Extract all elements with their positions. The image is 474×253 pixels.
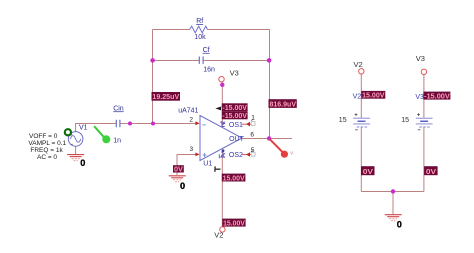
svg-text:uA741: uA741 (178, 108, 198, 115)
svg-text:AC = 0: AC = 0 (37, 154, 57, 161)
svg-text:15.00V: 15.00V (223, 219, 245, 228)
svg-text:OS2: OS2 (229, 152, 243, 159)
svg-text:V2: V2 (214, 231, 223, 240)
svg-text:15: 15 (401, 117, 409, 124)
svg-text:V2: V2 (354, 60, 363, 69)
svg-text:0: 0 (80, 158, 85, 168)
svg-text:Cin: Cin (113, 105, 124, 112)
svg-text:3: 3 (190, 146, 194, 153)
svg-text:-15.00V: -15.00V (424, 92, 450, 101)
svg-text:5: 5 (251, 147, 255, 154)
svg-text:Cf: Cf (203, 47, 210, 54)
svg-text:15.00V: 15.00V (362, 91, 384, 100)
svg-text:V3: V3 (230, 68, 239, 77)
svg-text:816.9uV: 816.9uV (270, 99, 297, 108)
svg-text:1: 1 (251, 115, 255, 122)
svg-text:OS1: OS1 (229, 122, 243, 129)
svg-text:V3: V3 (416, 54, 425, 63)
svg-text:0: 0 (180, 181, 185, 191)
svg-text:10k: 10k (194, 34, 206, 41)
svg-text:U1: U1 (203, 160, 212, 167)
svg-text:2: 2 (189, 116, 193, 123)
svg-text:OUT: OUT (229, 136, 245, 143)
svg-text:v: v (290, 150, 293, 156)
svg-text:V1: V1 (79, 125, 88, 132)
svg-text:15: 15 (339, 117, 347, 124)
svg-text:V3: V3 (415, 94, 424, 101)
svg-text:1n: 1n (113, 138, 121, 145)
svg-text:19.25uV: 19.25uV (152, 92, 179, 101)
svg-text:0V: 0V (426, 167, 436, 176)
svg-text:16n: 16n (203, 66, 215, 73)
svg-text:15.00V: 15.00V (223, 174, 245, 183)
svg-text:0V: 0V (363, 167, 373, 176)
svg-text:Rf: Rf (196, 18, 203, 25)
svg-text:6: 6 (250, 131, 254, 138)
svg-text:0: 0 (397, 219, 402, 229)
svg-text:-15.00V: -15.00V (222, 111, 247, 120)
svg-text:0V: 0V (174, 164, 183, 173)
svg-text:V2: V2 (353, 93, 362, 100)
